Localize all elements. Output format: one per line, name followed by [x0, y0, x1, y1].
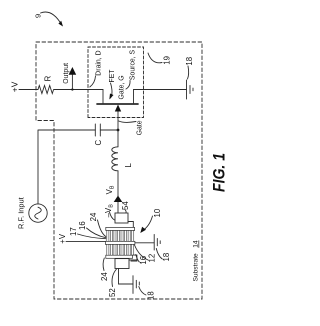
svg-text:52: 52 [108, 288, 117, 297]
wire +V to comb middle bar [66, 240, 105, 242]
label 18 source ground [185, 57, 194, 66]
svg-text:Gate: Gate [137, 120, 144, 135]
svg-text:10: 10 [153, 208, 162, 217]
electrode box 52 [115, 259, 129, 269]
drain leader [90, 76, 96, 87]
Source, S label [130, 49, 137, 80]
label +V comb [58, 233, 67, 244]
label 52 [108, 288, 117, 297]
comb middle bus bar [105, 241, 134, 244]
transistor FET channel bar [97, 103, 138, 105]
svg-text:19: 19 [163, 56, 172, 65]
wrap bracket at comb left bar [131, 255, 137, 261]
svg-text:24: 24 [100, 272, 109, 281]
capacitor C plates [94, 124, 96, 136]
svg-text:Output: Output [63, 63, 70, 84]
wire source to ground [134, 89, 187, 91]
Drain, D label [96, 50, 103, 75]
wire box52 to wrap [129, 259, 137, 261]
wire resistor to drain [54, 89, 103, 91]
comb fingers left group [107, 244, 134, 255]
wire gate junction to coil [117, 130, 119, 147]
svg-text:+V: +V [10, 81, 20, 92]
label R [44, 75, 53, 81]
node output junction [71, 88, 73, 90]
label 16 lower [139, 256, 148, 265]
wire rf to cap [39, 129, 96, 131]
rf source circle [29, 204, 47, 222]
svg-text:54: 54 [121, 201, 130, 210]
svg-text:17: 17 [69, 227, 78, 236]
sine wave [35, 207, 42, 219]
wire box52 to ground [119, 269, 134, 285]
arrow for 9 [41, 12, 62, 24]
comb device: right bus bar [106, 227, 135, 230]
svg-text:18: 18 [162, 253, 171, 262]
wire drain lead [102, 90, 104, 104]
svg-text:18: 18 [147, 291, 156, 300]
svg-text:Gate, G: Gate, G [119, 75, 126, 99]
svg-text:12: 12 [148, 254, 157, 263]
output arrow [71, 75, 73, 90]
node gate junction [117, 129, 120, 132]
wire +V to resistor [19, 89, 38, 91]
label L [124, 163, 133, 168]
svg-text:R.F. Input: R.F. Input [17, 197, 26, 229]
ground (box52) [132, 276, 134, 294]
ground (source) 18 [186, 80, 188, 99]
FET label [109, 69, 116, 83]
label 18 lower-left ground [147, 291, 156, 300]
label 9 [34, 14, 43, 18]
comb left bus bar [106, 255, 133, 258]
inductor L coil [112, 147, 118, 171]
+V label (drain supply) [10, 81, 20, 92]
FET leader arrow [111, 83, 113, 98]
resistor R [38, 86, 54, 94]
gate arrowhead [115, 105, 121, 112]
svg-text:+V: +V [58, 233, 67, 244]
Substrate 14 label [193, 240, 200, 281]
svg-text:C: C [94, 140, 103, 146]
svg-text:FIG. 1: FIG. 1 [211, 153, 229, 192]
svg-text:Substrate 14: Substrate 14 [193, 240, 200, 281]
Gate label (lead) [137, 120, 144, 135]
svg-text:Drain, D: Drain, D [96, 50, 103, 75]
svg-text:16: 16 [139, 256, 148, 265]
wire cap to gate junction [100, 129, 118, 131]
label C [94, 140, 103, 146]
wire comb middle bar to ground [135, 242, 154, 244]
wire source lead [133, 90, 135, 104]
FIG. 1 label [211, 153, 229, 192]
label 54 [121, 201, 130, 210]
label 24 lower [100, 272, 109, 281]
label VB [105, 185, 116, 194]
wire rf to cap corner [37, 130, 39, 204]
Output label [63, 63, 70, 84]
label 18 comb ground [162, 253, 171, 262]
svg-text:FET: FET [109, 69, 116, 83]
wire coil to VB arrow [117, 171, 119, 213]
label 19 FET box [163, 56, 172, 65]
label 24 upper [89, 212, 98, 221]
label 12 [148, 254, 157, 263]
R.F. Input label [17, 197, 26, 229]
label -VB [104, 204, 115, 218]
svg-text:R: R [44, 75, 53, 81]
svg-text:16: 16 [78, 221, 87, 230]
svg-text:Source, S: Source, S [130, 49, 137, 80]
svg-text:18: 18 [185, 57, 194, 66]
inner dashed box (FET package) [88, 47, 144, 118]
svg-text:24: 24 [89, 212, 98, 221]
svg-text:9: 9 [34, 14, 43, 18]
comb fingers right group [107, 231, 134, 242]
ground (comb) [153, 234, 155, 250]
source leader [126, 81, 130, 90]
label 10 with arrow [153, 208, 162, 217]
label 16 upper [78, 221, 87, 230]
VB bias arrow [114, 196, 123, 203]
label 17 [69, 227, 78, 236]
wire box54 to comb right bar [128, 222, 133, 228]
gate wire into FET [117, 112, 119, 131]
electrode box 54 [115, 213, 128, 223]
Gate, G label [119, 75, 126, 99]
svg-text:L: L [124, 163, 133, 168]
outer dashed box [36, 42, 202, 299]
